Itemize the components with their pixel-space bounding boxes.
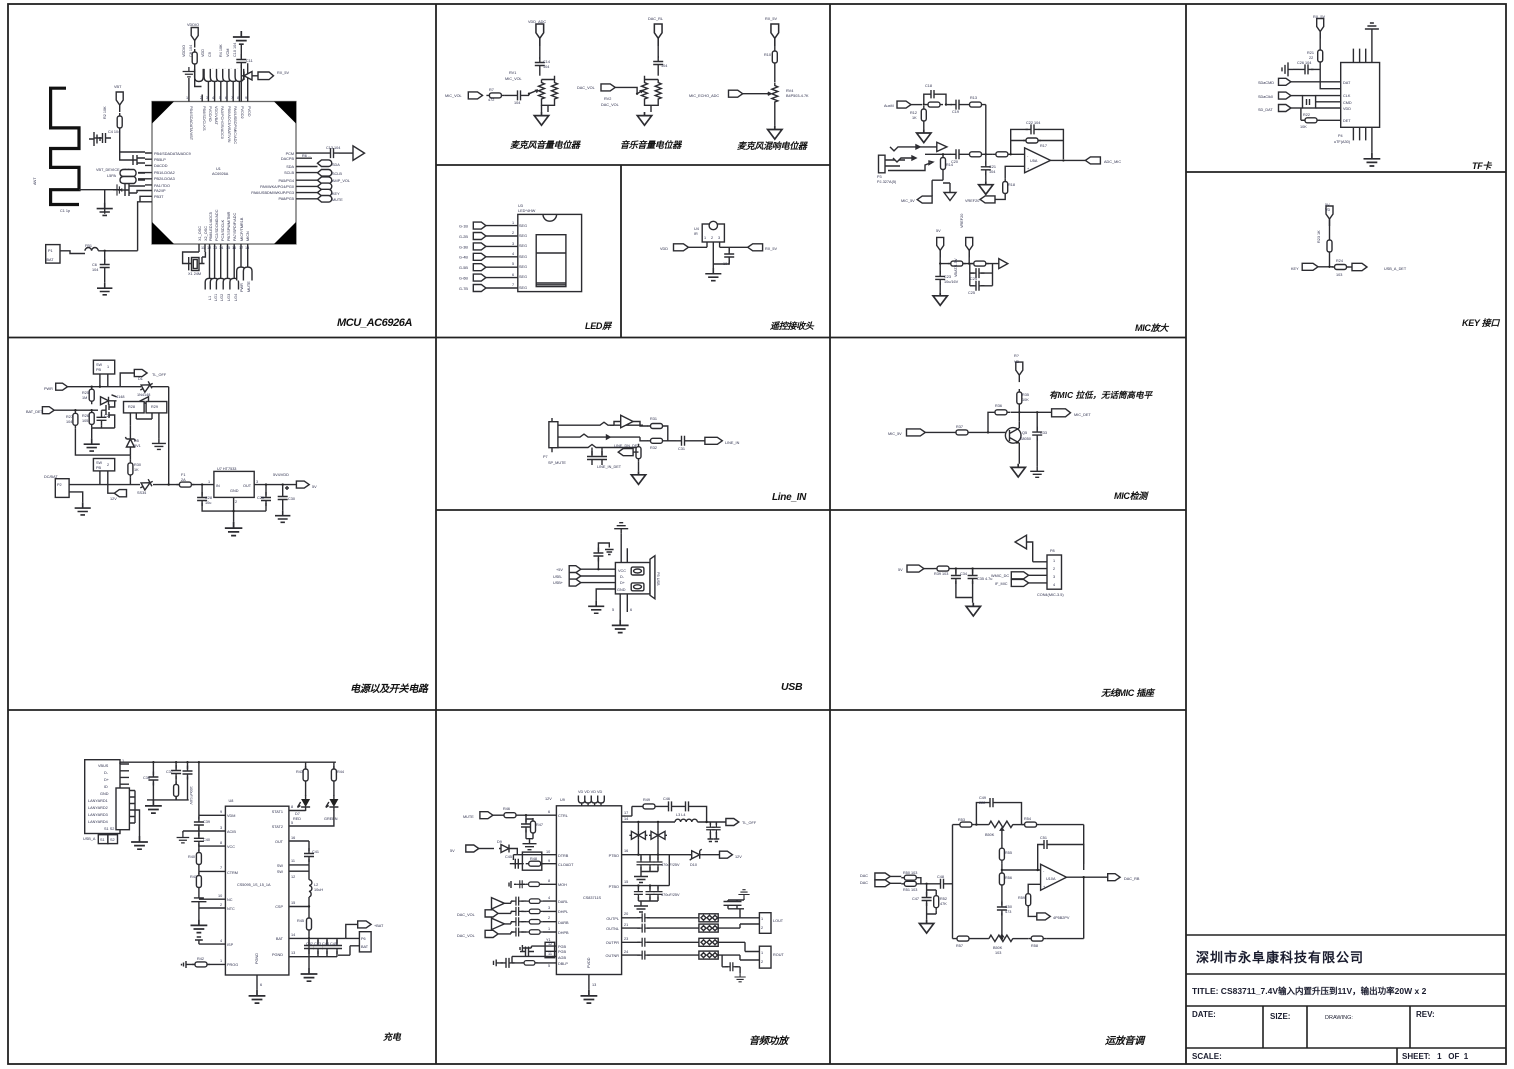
- svg-text:R4 10K: R4 10K: [219, 44, 223, 57]
- svg-text:5V: 5V: [936, 229, 941, 233]
- svg-text:SEG: SEG: [519, 244, 527, 248]
- svg-text:6: 6: [630, 608, 632, 612]
- svg-text:D5: D5: [134, 439, 139, 443]
- resistor R25: [89, 386, 94, 404]
- svg-text:14: 14: [291, 933, 295, 937]
- svg-text:R18: R18: [1008, 183, 1015, 187]
- R boxes RN1 RN2: [124, 402, 145, 413]
- svg-text:R50 103: R50 103: [903, 871, 917, 875]
- right side: boost network: [622, 806, 640, 822]
- svg-text:KEY: KEY: [332, 192, 340, 196]
- resistor R21: [1318, 47, 1323, 65]
- pot2 power flag DAC_RL: [654, 24, 662, 46]
- DAC inputs: [492, 898, 505, 909]
- svg-text:S8050: S8050: [1020, 437, 1031, 441]
- svg-text:VREF20: VREF20: [965, 199, 979, 203]
- port LINE_IN: [705, 437, 722, 444]
- svg-text:NC: NC: [227, 898, 233, 902]
- svg-text:G-5B: G-5B: [459, 266, 468, 270]
- svg-text:222: 222: [979, 801, 985, 805]
- ground: [89, 132, 100, 146]
- svg-text:472: 472: [488, 98, 494, 102]
- capacitor C29: [265, 485, 267, 496]
- svg-text:CLK: CLK: [1343, 94, 1351, 98]
- svg-text:1: 1: [186, 96, 188, 100]
- svg-text:5: 5: [612, 608, 614, 612]
- svg-text:SIZE:: SIZE:: [1270, 1012, 1290, 1021]
- svg-text:GND: GND: [617, 588, 626, 592]
- port PB1: [120, 170, 136, 177]
- svg-text:C39: C39: [203, 820, 210, 824]
- input ports DAC_L/R: [875, 873, 890, 880]
- port ADC_KEY: [1352, 263, 1367, 270]
- svg-text:RV2: RV2: [604, 97, 611, 101]
- wire antenna to ground: [79, 190, 122, 214]
- IR receiver U4: [694, 221, 724, 268]
- ground triangle: [1011, 464, 1025, 477]
- feedback cap C51: [1038, 840, 1084, 870]
- capacitor C20 series on main: [951, 149, 965, 159]
- svg-text:5V: 5V: [898, 568, 903, 572]
- resistor R15: [967, 152, 985, 157]
- MUTE input: [480, 812, 493, 819]
- svg-text:G-7B: G-7B: [459, 287, 468, 291]
- feedback cap C22 + resistor R17: [1011, 129, 1064, 159]
- svg-text:2: 2: [711, 236, 713, 240]
- top fork ports x7: [195, 69, 244, 82]
- ground top: [1365, 23, 1379, 34]
- top rail: [120, 761, 336, 763]
- ground triangle: [966, 603, 980, 616]
- svg-text:C10 104: C10 104: [233, 43, 237, 57]
- chip U8: [225, 806, 289, 975]
- svg-text:9: 9: [245, 96, 247, 100]
- svg-text:麦克风混响电位器: 麦克风混响电位器: [737, 141, 808, 151]
- inductors L3 L4: [638, 821, 675, 823]
- wire: [539, 38, 541, 59]
- svg-text:MUTE: MUTE: [463, 815, 474, 819]
- ground: [588, 601, 604, 614]
- svg-text:IF_MIC: IF_MIC: [995, 582, 1008, 586]
- pot RV2 dual element: [642, 80, 648, 102]
- port KEY: [1302, 263, 1318, 270]
- port MIC_ECHO_ADC: [729, 90, 743, 97]
- svg-text:LINE_IN_DET: LINE_IN_DET: [597, 465, 622, 469]
- zener D4: [75, 428, 130, 455]
- svg-text:C24: C24: [970, 277, 977, 281]
- resistor R31: [648, 424, 666, 429]
- resistor R38: [934, 566, 952, 571]
- svg-text:L2: L2: [314, 883, 318, 887]
- ground triangle: [768, 126, 782, 139]
- svg-text:103: 103: [1336, 273, 1342, 277]
- svg-text:RX_5V: RX_5V: [765, 247, 777, 251]
- svg-text:C29: C29: [257, 496, 264, 500]
- resistor R2: [117, 113, 122, 131]
- svg-text:IN: IN: [216, 484, 220, 488]
- svg-text:C45: C45: [505, 855, 512, 859]
- svg-text:RV4: RV4: [786, 89, 793, 93]
- svg-text:DAC: DAC: [860, 874, 868, 878]
- right pins wires: [296, 153, 325, 199]
- svg-text:DARB: DARB: [558, 921, 569, 925]
- port VDD: [907, 565, 924, 572]
- port TL_OFF: [726, 819, 739, 826]
- PGB box: [545, 942, 555, 957]
- svg-text:6: 6: [548, 810, 550, 814]
- svg-text:USB+: USB+: [553, 581, 564, 585]
- svg-text:R17: R17: [1040, 144, 1047, 148]
- svg-text:470uF/25V: 470uF/25V: [661, 863, 680, 867]
- left pins: [145, 153, 152, 202]
- svg-text:C48: C48: [937, 875, 944, 879]
- USB-A connector J3: [85, 760, 120, 834]
- svg-text:1K: 1K: [134, 468, 139, 472]
- svg-text:PA5/PG4: PA5/PG4: [278, 179, 294, 183]
- svg-text:15: 15: [226, 246, 230, 250]
- svg-text:VDD/VBAT: VDD/VBAT: [214, 106, 218, 125]
- resistor R3: [192, 49, 197, 67]
- ground triangle: [944, 190, 956, 201]
- inductor L1: [85, 248, 98, 251]
- LEDs D7 D8: [306, 762, 334, 768]
- svg-text:SDaClk0: SDaClk0: [1258, 95, 1273, 99]
- port 12V: [114, 490, 126, 497]
- capacitor C11: [236, 54, 246, 68]
- svg-text:16: 16: [624, 849, 628, 853]
- svg-text:USB: USB: [781, 681, 803, 693]
- chip bottom pin to gnd: [256, 975, 258, 990]
- svg-text:R21: R21: [1307, 51, 1314, 55]
- svg-text:8: 8: [237, 96, 239, 100]
- svg-text:SW: SW: [277, 870, 284, 874]
- port PWR: [56, 383, 68, 390]
- svg-text:9: 9: [220, 810, 222, 814]
- svg-text:12: 12: [291, 875, 295, 879]
- svg-text:电源以及开关电路: 电源以及开关电路: [350, 683, 429, 695]
- svg-text:C42 C43 C44 C45: C42 C43 C44 C45: [306, 942, 337, 946]
- pot RV1 dual element: [539, 80, 545, 102]
- svg-text:VDD_ADC: VDD_ADC: [528, 20, 546, 24]
- svg-text:SDA: SDA: [332, 163, 340, 167]
- svg-text:18: 18: [245, 246, 249, 250]
- svg-text:P1: P1: [48, 249, 53, 253]
- svg-text:SP_MUTE: SP_MUTE: [548, 461, 566, 465]
- port MIC_IN: [907, 429, 926, 436]
- inductor L2: [309, 880, 312, 897]
- connector P6: [359, 932, 371, 952]
- feedback cap C18 over R: [924, 90, 946, 105]
- svg-text:L3 L4: L3 L4: [676, 813, 686, 817]
- svg-text:D7: D7: [295, 812, 300, 816]
- svg-text:SHEET: 1 OF 1: SHEET: 1 OF 1: [1402, 1052, 1469, 1061]
- svg-text:5V: 5V: [312, 485, 317, 489]
- svg-text:5V: 5V: [1325, 203, 1330, 207]
- svg-text:D1: D1: [138, 377, 143, 381]
- top pot RV5: [989, 821, 1013, 828]
- svg-text:PVDD: PVDD: [247, 106, 251, 117]
- svg-text:AMP_VOL: AMP_VOL: [332, 179, 350, 183]
- capacitor C13: [325, 148, 339, 158]
- svg-text:C47: C47: [912, 897, 919, 901]
- port SP det: [618, 449, 633, 456]
- top pin names vertical inside: [189, 106, 251, 144]
- svg-text:LG2: LG2: [220, 294, 224, 301]
- svg-text:OUTPR: OUTPR: [606, 941, 620, 945]
- svg-text:PA3/PCHGR/ADC0: PA3/PCHGR/ADC0: [220, 106, 224, 139]
- svg-text:S1: S1: [100, 838, 105, 842]
- svg-text:VCC: VCC: [227, 845, 235, 849]
- svg-text:10uH: 10uH: [314, 888, 323, 892]
- svg-text:R56: R56: [1005, 876, 1012, 880]
- MOH row: [520, 883, 557, 885]
- svg-text:47K: 47K: [940, 902, 947, 906]
- svg-text:24: 24: [624, 950, 628, 954]
- svg-text:4: 4: [1053, 583, 1055, 587]
- ground triangle: [917, 129, 931, 142]
- svg-text:BAT_DET: BAT_DET: [26, 410, 43, 414]
- svg-text:104: 104: [514, 101, 520, 105]
- svg-text:PA7/SPDIF/ADC: PA7/SPDIF/ADC: [233, 213, 237, 241]
- port VREF20: [980, 196, 995, 203]
- svg-text:P8: P8: [1050, 549, 1055, 553]
- resistor R7: [482, 94, 485, 96]
- buffer triangle: [353, 146, 365, 160]
- svg-text:LED*4HW: LED*4HW: [518, 209, 536, 213]
- svg-text:R26: R26: [82, 414, 89, 418]
- SW pins to inductor: [289, 865, 309, 880]
- ground: [104, 273, 106, 283]
- resistor R8: [772, 48, 777, 66]
- bottom fork ports group1: [205, 278, 238, 289]
- svg-text:C21: C21: [989, 165, 996, 169]
- svg-text:PB7/SPWM/TMR: PB7/SPWM/TMR: [227, 211, 231, 241]
- svg-text:U3: U3: [518, 204, 523, 208]
- TF socket U6: [1341, 63, 1380, 128]
- svg-text:C22 104: C22 104: [1026, 121, 1040, 125]
- svg-text:PB6/SD/CLKS: PB6/SD/CLKS: [202, 106, 206, 131]
- bottom shield pins: [620, 594, 627, 620]
- svg-text:13: 13: [592, 983, 596, 987]
- svg-text:R35: R35: [1022, 393, 1029, 397]
- svg-text:R39 103: R39 103: [934, 572, 948, 576]
- PTBO2 caps: [637, 884, 639, 886]
- svg-text:MOH: MOH: [558, 883, 567, 887]
- svg-text:PC3/SDCLK: PC3/SDCLK: [221, 219, 225, 241]
- ground rotated: [1282, 62, 1293, 76]
- svg-text:RX_5V: RX_5V: [277, 71, 289, 75]
- svg-text:LANYARD4: LANYARD4: [88, 820, 108, 824]
- junction vertical: [985, 105, 987, 155]
- right pin names inside: [251, 152, 294, 201]
- svg-text:PB0/ADC3/VBAT/VIN: PB0/ADC3/VBAT/VIN: [227, 106, 231, 143]
- svg-text:13: 13: [213, 246, 217, 250]
- svg-text:麦克风音量电位器: 麦克风音量电位器: [510, 140, 581, 150]
- svg-text:MIC_VOL: MIC_VOL: [505, 77, 522, 81]
- svg-text:Line_IN: Line_IN: [772, 492, 807, 503]
- svg-text:DAC_VOL: DAC_VOL: [457, 913, 475, 917]
- svg-text:PA6/USBDM/WKUP/PG3: PA6/USBDM/WKUP/PG3: [251, 191, 294, 195]
- svg-text:3: 3: [548, 906, 550, 910]
- pin numbers: [512, 221, 514, 287]
- svg-text:2: 2: [548, 916, 550, 920]
- svg-text:14: 14: [219, 246, 223, 250]
- svg-text:+5V: +5V: [556, 568, 563, 572]
- svg-text:ISP: ISP: [227, 943, 234, 947]
- svg-text:473: 473: [1005, 910, 1011, 914]
- svg-text:VD VD VD VD: VD VD VD VD: [578, 790, 603, 794]
- svg-text:PB3T: PB3T: [154, 195, 164, 199]
- svg-text:11: 11: [548, 952, 552, 956]
- svg-text:R29: R29: [151, 405, 158, 409]
- port BAT_DET: [42, 407, 54, 414]
- svg-text:MCU_AC6926A: MCU_AC6926A: [337, 317, 413, 329]
- svg-text:SDaCMD: SDaCMD: [1258, 81, 1274, 85]
- ground triangle: [534, 112, 548, 125]
- caps to gnd: [710, 822, 716, 825]
- right port labels: [332, 163, 350, 202]
- antenna ANT1: [51, 88, 79, 204]
- svg-text:C37: C37: [166, 770, 173, 774]
- svg-text:11: 11: [201, 246, 205, 250]
- capacitor C26: [1300, 64, 1314, 74]
- svg-text:TL_OFF: TL_OFF: [152, 373, 167, 377]
- wire: [120, 131, 145, 160]
- svg-text:R49: R49: [643, 798, 650, 802]
- svg-text:R32: R32: [650, 446, 657, 450]
- capacitor C30 electrolytic: [282, 485, 284, 493]
- svg-text:SEG: SEG: [519, 286, 527, 290]
- svg-text:+BAT: +BAT: [374, 924, 384, 928]
- svg-text:D9: D9: [497, 840, 502, 844]
- ground small: [113, 184, 122, 195]
- svg-text:R10: R10: [764, 53, 771, 57]
- buffer triangle left: [1015, 535, 1026, 549]
- svg-text:14: 14: [624, 817, 628, 821]
- power flag VDD top: [191, 28, 198, 48]
- resistor R23: [1327, 237, 1332, 255]
- svg-text:PA1/TDO: PA1/TDO: [154, 184, 170, 188]
- connector CN1: [1047, 555, 1062, 589]
- svg-text:U5A: U5A: [1030, 159, 1038, 163]
- svg-text:R27: R27: [66, 415, 73, 419]
- svg-text:RX_5V: RX_5V: [1313, 15, 1325, 19]
- svg-text:USB-: USB-: [553, 575, 563, 579]
- svg-text:15: 15: [624, 880, 628, 884]
- capacitor C14: [535, 57, 545, 71]
- svg-text:VREF20: VREF20: [960, 214, 964, 228]
- ports x3: [569, 566, 581, 573]
- svg-text:12: 12: [207, 246, 211, 250]
- bottom right cap cluster: [722, 955, 740, 973]
- svg-text:R36: R36: [995, 404, 1002, 408]
- svg-text:SEG: SEG: [519, 275, 527, 279]
- ground: [705, 268, 721, 281]
- network left rail: [953, 825, 958, 939]
- wires: [486, 226, 518, 288]
- svg-text:CLOADT: CLOADT: [558, 863, 574, 867]
- svg-text:17: 17: [624, 811, 628, 815]
- svg-text:C23: C23: [944, 275, 951, 279]
- svg-text:104: 104: [543, 65, 549, 69]
- series cap C48: [935, 879, 949, 889]
- top rail resistor R53: [957, 822, 975, 827]
- svg-text:4: 4: [548, 896, 550, 900]
- bottom pin number row: [201, 246, 249, 250]
- svg-text:SW: SW: [96, 363, 103, 367]
- left pin names: [154, 152, 191, 199]
- svg-text:1: 1: [761, 917, 763, 921]
- svg-text:R28: R28: [128, 405, 135, 409]
- svg-text:L1: L1: [208, 296, 212, 300]
- svg-text:无线MIC 插座: 无线MIC 插座: [1100, 688, 1156, 698]
- svg-text:MUTE: MUTE: [247, 281, 251, 292]
- svg-text:P2: P2: [57, 483, 62, 487]
- svg-text:VDDIO: VDDIO: [187, 23, 199, 27]
- svg-text:U1: U1: [216, 167, 221, 171]
- svg-text:WMIC_DC: WMIC_DC: [991, 574, 1009, 578]
- svg-text:STAT1: STAT1: [272, 810, 283, 814]
- svg-text:GND: GND: [230, 489, 239, 493]
- svg-text:CON4(MIC-3.5): CON4(MIC-3.5): [1037, 593, 1064, 597]
- resistor R32: [610, 437, 648, 441]
- tiny ref labels above forks: [182, 43, 237, 57]
- middle chain: [1001, 832, 1003, 846]
- svg-text:1: 1: [220, 959, 222, 963]
- svg-text:12: 12: [548, 942, 552, 946]
- svg-text:充电: 充电: [383, 1032, 402, 1042]
- power flag VBT: [116, 92, 123, 112]
- wire rail A: [68, 387, 169, 485]
- top cap loop C49: [976, 798, 1021, 825]
- svg-text:1: 1: [761, 951, 763, 955]
- ports MIC: [1011, 572, 1028, 579]
- switch S2: [93, 459, 114, 471]
- svg-text:4: 4: [212, 96, 214, 100]
- cap array box: [1303, 96, 1316, 108]
- svg-text:DAC_VOL: DAC_VOL: [577, 86, 595, 90]
- svg-text:C26 104: C26 104: [1297, 61, 1311, 65]
- svg-text:CMD: CMD: [1343, 101, 1352, 105]
- svg-text:KEY 接口: KEY 接口: [1462, 318, 1500, 328]
- port MIC_DET: [1052, 409, 1071, 417]
- capacitor C17: [724, 249, 734, 263]
- svg-text:MIC检测: MIC检测: [1114, 491, 1149, 501]
- svg-text:MUTE: MUTE: [332, 198, 343, 202]
- svg-text:CTRM: CTRM: [227, 871, 238, 875]
- cap + small gnd: [598, 543, 609, 569]
- svg-text:104: 104: [66, 420, 72, 424]
- svg-text:TF卡: TF卡: [1472, 161, 1492, 171]
- wire: [688, 247, 748, 251]
- bottom pin names vertical inside: [198, 209, 250, 241]
- port SDaCMD: [1279, 78, 1291, 85]
- svg-text:1: 1: [107, 365, 109, 369]
- svg-text:C6: C6: [92, 263, 97, 267]
- svg-text:CSP: CSP: [275, 905, 283, 909]
- svg-text:1: 1: [208, 480, 210, 484]
- svg-text:VDM: VDM: [227, 814, 235, 818]
- svg-text:4: 4: [512, 252, 514, 256]
- svg-text:2: 2: [235, 500, 237, 504]
- ground top-left: [183, 67, 196, 77]
- svg-text:RX_5V: RX_5V: [765, 17, 777, 21]
- svg-text:B50K: B50K: [993, 946, 1003, 950]
- svg-text:SEG: SEG: [519, 255, 527, 259]
- svg-text:C9: C9: [208, 52, 212, 57]
- diode pairs D11 D12: [637, 821, 639, 823]
- svg-text:2: 2: [220, 903, 222, 907]
